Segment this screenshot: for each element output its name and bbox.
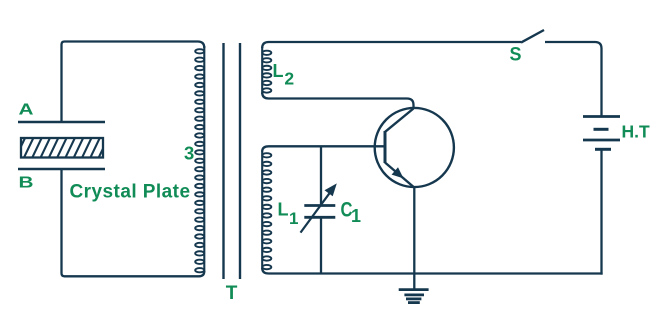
svg-text:T: T [226, 283, 238, 304]
wire: L2 bottom lead to collector [262, 93, 413, 110]
crystal X1 (hatched plate) [15, 136, 109, 159]
wire: bottom rail [262, 268, 602, 274]
crystal bottom plate [18, 168, 105, 171]
svg-text:Crystal Plate: Crystal Plate [70, 181, 191, 202]
svg-text:2: 2 [284, 68, 294, 88]
transformer primary winding (3) [195, 46, 204, 272]
switch S (blade) [521, 30, 544, 43]
coil L1 [262, 151, 271, 270]
wire: primary bottom lead to crystal [62, 169, 205, 276]
svg-text:L: L [273, 61, 284, 81]
wire: C1 top lead [320, 146, 322, 205]
svg-text:3: 3 [184, 143, 194, 164]
transformer core T [224, 43, 241, 279]
svg-text:H.T: H.T [622, 121, 651, 141]
arrow of variable capacitor C1 [301, 183, 337, 232]
svg-text:A: A [19, 101, 35, 118]
svg-text:1: 1 [289, 209, 298, 228]
svg-text:S: S [510, 45, 522, 66]
svg-text:L: L [278, 199, 289, 219]
svg-text:B: B [19, 175, 34, 192]
capacitor C1 plates [304, 206, 335, 218]
battery H.T [583, 117, 620, 150]
ground [399, 290, 429, 303]
transistor Q1 [375, 108, 454, 187]
wire: L2 top rail to switch [262, 42, 521, 48]
svg-text:1: 1 [351, 206, 361, 226]
wire: crystal top lead to transformer primary [62, 42, 205, 123]
wire: emitter to ground [413, 186, 415, 289]
coil L2 [262, 47, 271, 94]
wire: tank top / base lead [262, 146, 385, 151]
wire: C1 bottom lead [320, 217, 322, 273]
wire: battery negative to bottom rail [600, 151, 602, 275]
wire: switch to battery positive [545, 42, 602, 117]
crystal top plate [18, 121, 105, 124]
